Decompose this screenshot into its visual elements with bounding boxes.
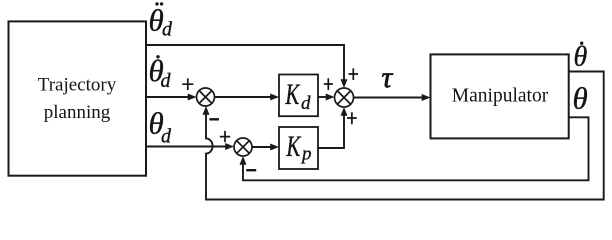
- wire theta-d to J2: [146, 146, 226, 148]
- summing junction J3: [335, 88, 354, 107]
- minus sign at J1: [209, 118, 219, 120]
- arrowhead into J1 left: [188, 94, 197, 101]
- summing junction J2: [234, 138, 252, 156]
- wire theta-dd feedforward top: [146, 45, 344, 80]
- block Trajectory planning: [9, 21, 147, 175]
- arrowhead into Manipulator: [422, 94, 431, 101]
- wire theta-d-dot to J1: [146, 96, 189, 98]
- svg-text:Manipulator: Manipulator: [452, 86, 549, 107]
- block Kp: [279, 127, 318, 169]
- block Kd: [279, 75, 318, 117]
- wire J2 to Kp: [252, 146, 272, 148]
- plus sign at J2: [220, 131, 230, 142]
- svg-text:d: d: [161, 126, 172, 148]
- svg-text:d: d: [161, 70, 172, 92]
- block Manipulator: [431, 54, 569, 138]
- svg-text:θ: θ: [573, 81, 588, 116]
- arrowhead into J3 top: [341, 79, 348, 88]
- svg-text:K: K: [285, 79, 301, 111]
- plus sign at J3 top: [349, 68, 358, 80]
- svg-text:d: d: [301, 93, 311, 114]
- arrowhead into J3 bottom: [341, 107, 348, 116]
- svg-text:Trajectory: Trajectory: [38, 75, 117, 96]
- arrowhead into J2 bottom: [240, 156, 247, 165]
- wire Kd to J3: [318, 96, 327, 98]
- svg-text:planning: planning: [44, 102, 111, 123]
- wire theta-dot feedback with hop: [206, 72, 604, 200]
- arrowhead into J1 bottom: [203, 106, 210, 115]
- plus sign at J3 bottom: [347, 112, 357, 124]
- arrowhead into J3 left: [326, 94, 335, 101]
- svg-text:p: p: [300, 144, 312, 165]
- plus sign at J3 left: [324, 78, 333, 90]
- svg-text:τ: τ: [382, 61, 394, 94]
- arrowhead into J2 left: [225, 143, 234, 150]
- arrowhead into Kd: [270, 94, 279, 101]
- summing junction J1: [197, 88, 215, 106]
- wire J1 to Kd: [215, 96, 272, 98]
- plus sign at J1: [182, 78, 193, 90]
- wire Kp up to J3 bottom: [318, 116, 344, 149]
- svg-text:d: d: [162, 19, 173, 41]
- svg-text:K: K: [286, 131, 302, 163]
- minus sign at J2: [246, 169, 256, 171]
- svg-text:θ: θ: [574, 42, 588, 73]
- wire tau J3 to Manipulator: [354, 97, 424, 99]
- wire theta feedback: [243, 117, 589, 180]
- arrowhead into Kp: [270, 144, 279, 151]
